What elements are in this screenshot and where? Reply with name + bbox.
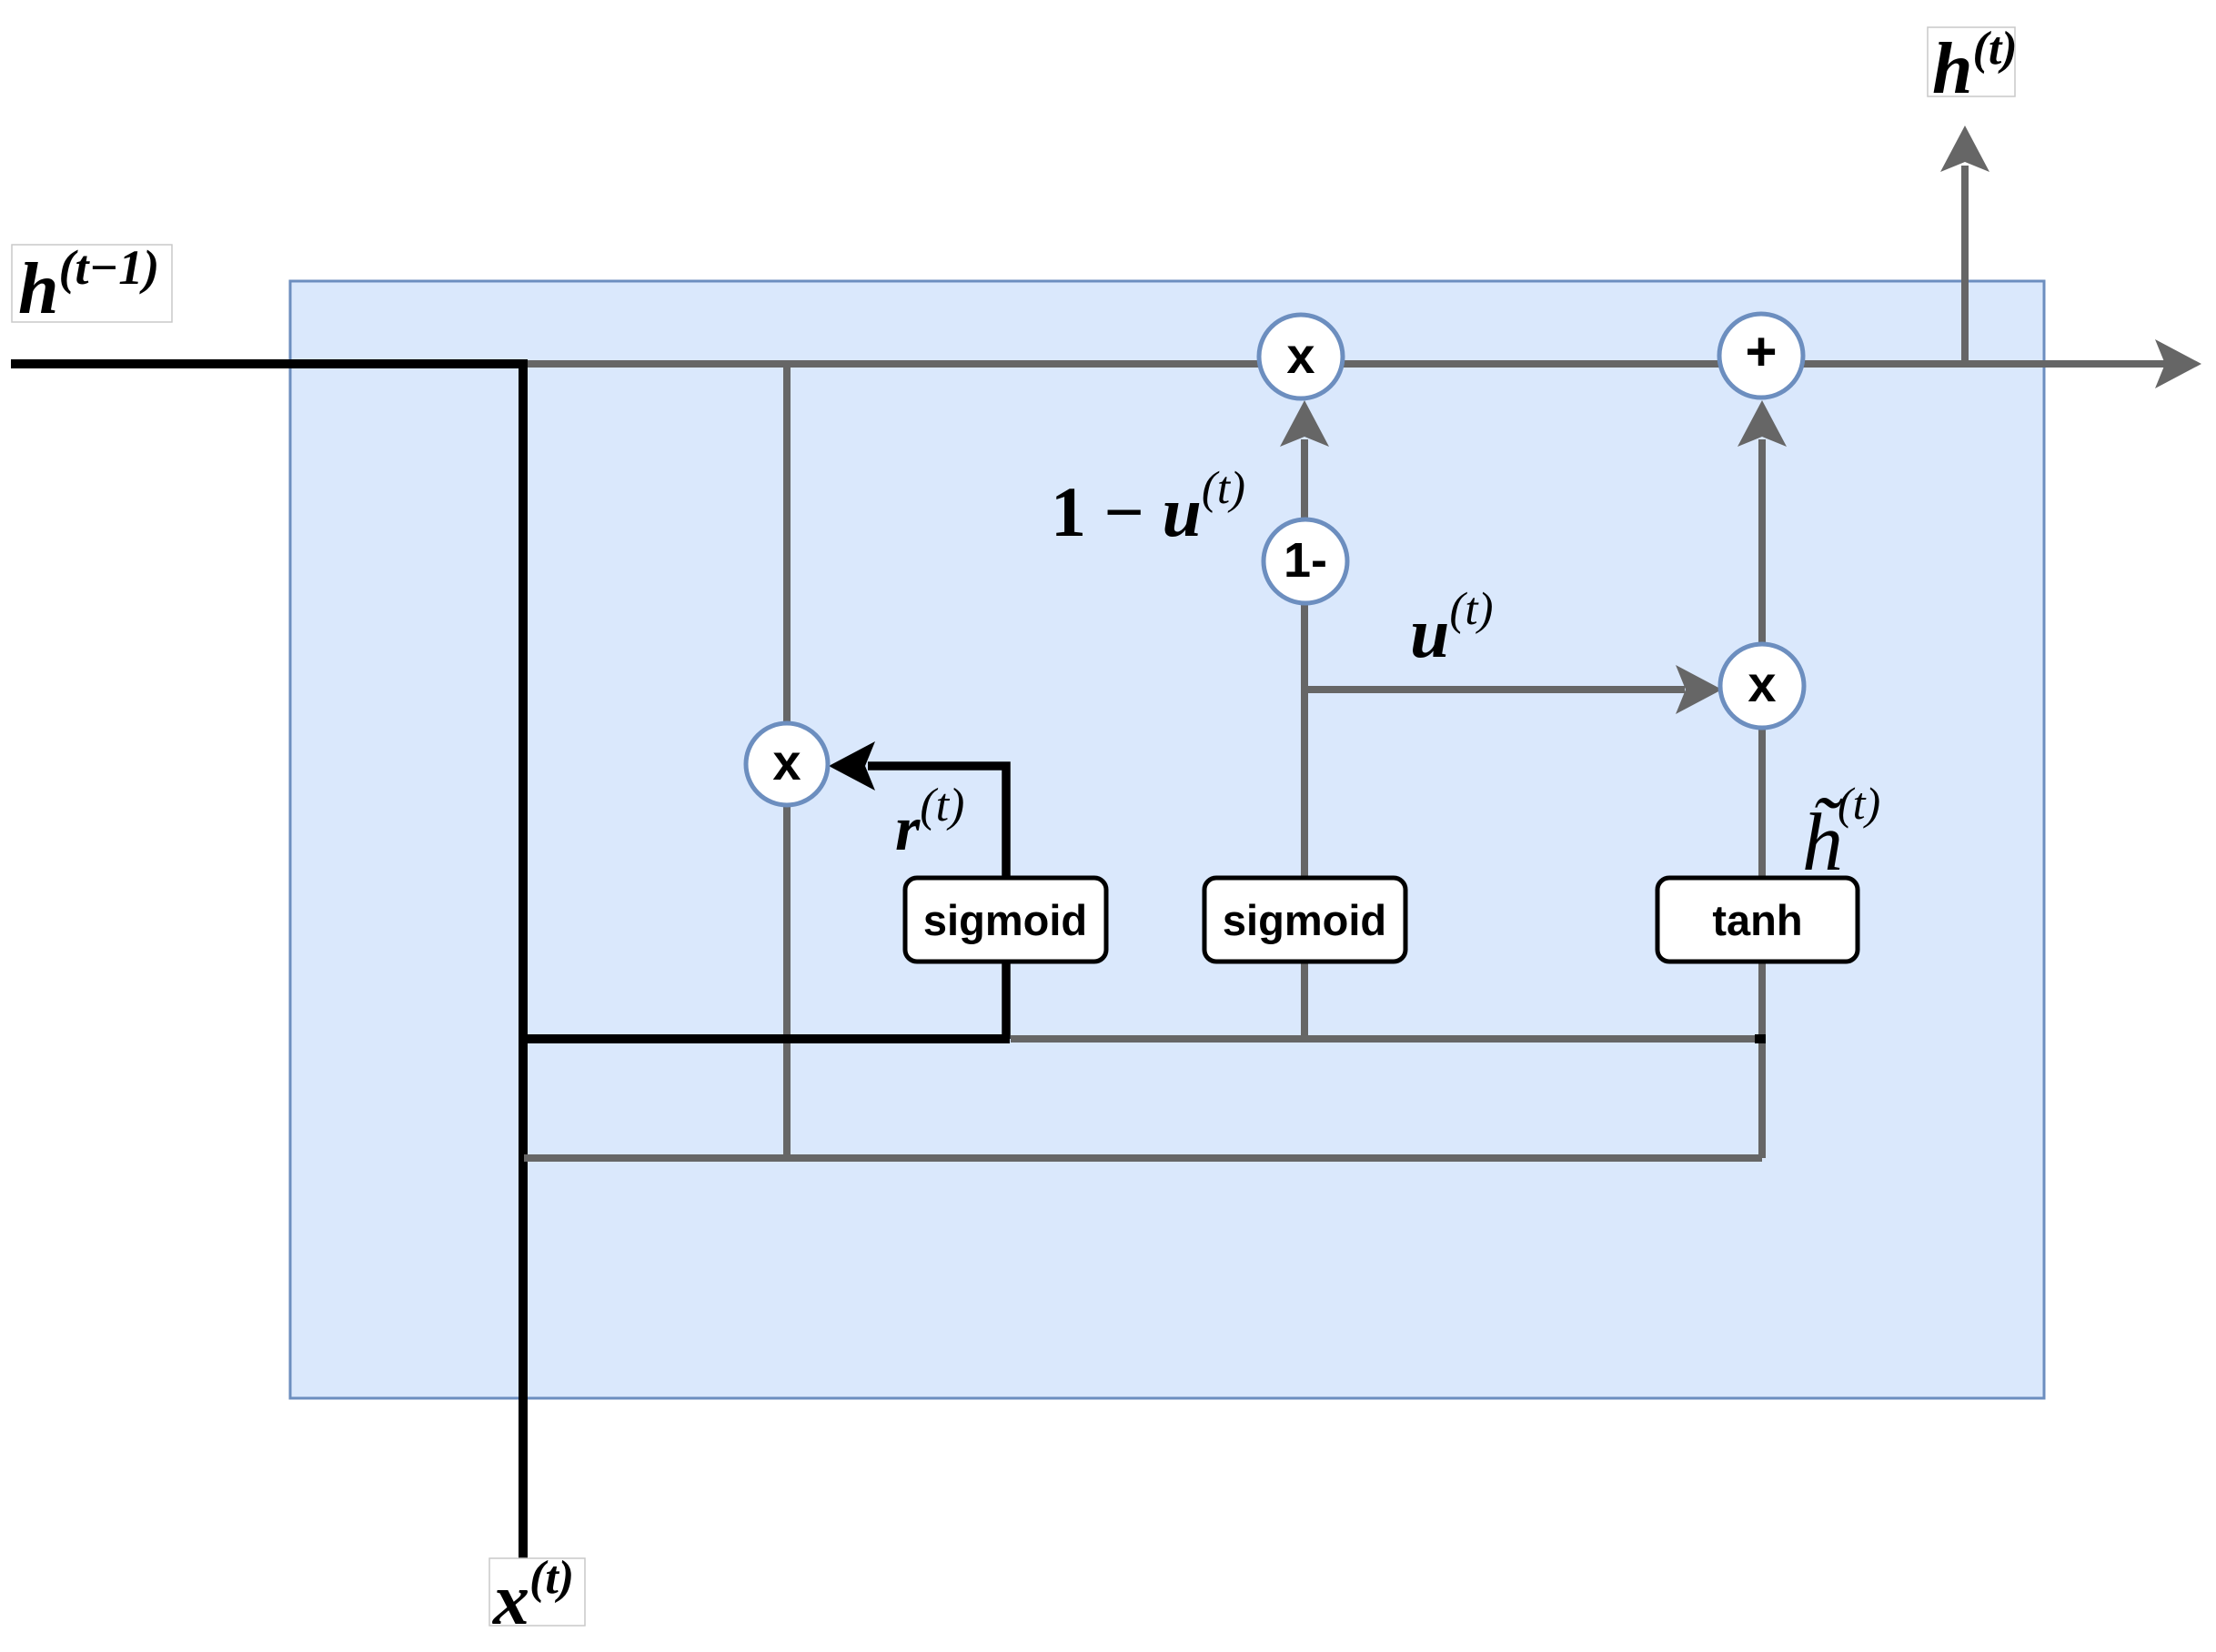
wire V3: update-gate vertical through 1- to top multiply [1301, 439, 1308, 1039]
label box: x(t) [489, 1558, 585, 1626]
svg-text:sigmoid: sigmoid [923, 896, 1087, 944]
svg-text:x: x [1286, 327, 1314, 384]
wire: u(t) branch to candidate multiply [1304, 686, 1685, 693]
svg-text:sigmoid: sigmoid [1223, 896, 1386, 944]
box: tanh (candidate) [1657, 878, 1858, 962]
svg-text:tanh: tanh [1712, 896, 1802, 944]
gate circle: top multiply (x) [1259, 315, 1343, 398]
svg-text:x: x [772, 733, 801, 791]
wire B: lower distribution line from trunk to tanh column [524, 1154, 1762, 1162]
wire: h(t-1) input, black, turns down into x(t) trunk [11, 364, 523, 1558]
box: sigmoid2 (update gate) [1204, 878, 1405, 962]
gate circle: reset multiply (x) [746, 723, 828, 805]
arrowhead: 1-u(t) up into top multiply [1280, 400, 1329, 447]
wire V2: black reset-gate line through sigmoid1, with r(t) arrow shaft [868, 766, 1006, 1039]
gate circle: adder (+) [1719, 314, 1803, 398]
wire: h(t) vertical output [1961, 166, 1969, 364]
gate circle: candidate multiply (x) [1720, 644, 1804, 728]
label box: h(t-1) [12, 245, 172, 322]
svg-text:+: + [1745, 321, 1777, 382]
svg-text:1-: 1- [1284, 533, 1327, 588]
svg-text:x(t): x(t) [492, 1552, 574, 1640]
arrowhead: u(t) right into candidate multiply [1676, 665, 1722, 714]
wire V1: gray branch from h-line down through reset multiply to line B [783, 364, 791, 1158]
arrowhead: h(t) up [1940, 126, 1989, 172]
node: line A end cap [1755, 1034, 1766, 1043]
label box: h(t) [1928, 27, 2015, 96]
wire A: input distribution line, black part from trunk to sigmoid1 [523, 1034, 1010, 1043]
gate circle: 1- complement [1264, 519, 1347, 603]
wire A: gray part to tanh column [1011, 1035, 1762, 1043]
wire V4: candidate path vertical through tanh and candidate multiply to adder [1758, 439, 1766, 1158]
arrowhead: h-line right output [2155, 339, 2201, 388]
box: sigmoid1 (reset gate) [905, 878, 1106, 962]
arrowhead: candidate up into adder [1738, 400, 1787, 447]
svg-text:x: x [1748, 655, 1776, 712]
arrowhead: r(t) left into reset multiply [829, 741, 875, 791]
GRU cell body [290, 281, 2044, 1398]
wire: hidden-state line, gray, across cell to output [526, 360, 2165, 368]
